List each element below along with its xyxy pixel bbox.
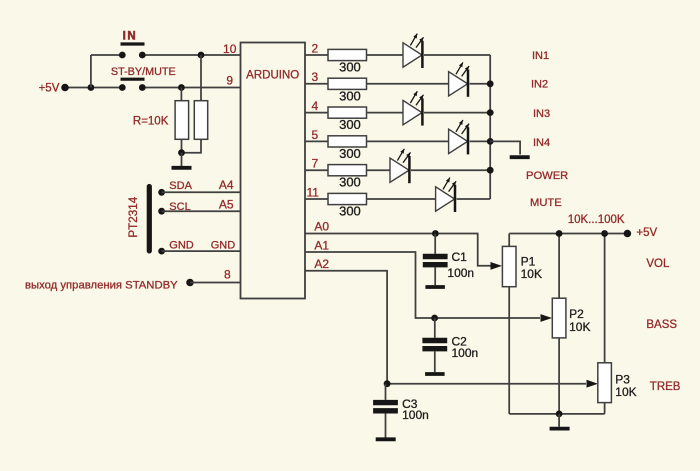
svg-text:C1: C1 (452, 250, 468, 264)
svg-text:+5V: +5V (39, 82, 60, 94)
svg-text:8: 8 (224, 268, 231, 282)
svg-text:A5: A5 (219, 198, 234, 212)
svg-text:300: 300 (339, 146, 361, 161)
svg-text:SCL: SCL (169, 201, 190, 213)
svg-text:100n: 100n (452, 346, 479, 360)
svg-text:R=10K: R=10K (133, 116, 169, 128)
svg-text:TREB: TREB (650, 381, 681, 393)
svg-text:10: 10 (223, 42, 237, 56)
svg-text:выход управления STANDBY: выход управления STANDBY (25, 279, 178, 291)
svg-text:300: 300 (339, 88, 361, 103)
svg-text:ARDUINO: ARDUINO (246, 69, 299, 81)
svg-text:ST-BY/MUTE: ST-BY/MUTE (111, 66, 176, 78)
svg-text:100n: 100n (447, 266, 474, 280)
svg-text:VOL: VOL (646, 258, 670, 270)
svg-text:10K...100K: 10K...100K (568, 214, 625, 226)
svg-text:BASS: BASS (646, 319, 677, 331)
svg-text:11: 11 (307, 185, 320, 199)
svg-text:A4: A4 (219, 178, 234, 192)
svg-text:A0: A0 (314, 220, 329, 234)
svg-text:300: 300 (339, 117, 361, 132)
svg-text:2: 2 (312, 41, 319, 55)
svg-text:IN1: IN1 (532, 50, 549, 62)
svg-text:A1: A1 (314, 238, 329, 252)
svg-text:4: 4 (312, 99, 319, 113)
svg-text:5: 5 (312, 128, 319, 142)
svg-text:IN4: IN4 (533, 137, 550, 149)
svg-text:MUTE: MUTE (530, 197, 562, 209)
svg-text:IN2: IN2 (531, 78, 548, 90)
svg-text:300: 300 (339, 204, 361, 219)
svg-text:PT2314: PT2314 (127, 196, 140, 237)
svg-text:+5V: +5V (636, 227, 657, 239)
svg-text:POWER: POWER (526, 170, 568, 182)
svg-text:300: 300 (339, 60, 361, 75)
svg-text:100n: 100n (402, 408, 429, 422)
svg-text:300: 300 (339, 175, 361, 190)
svg-text:SDA: SDA (169, 180, 192, 192)
svg-text:10K: 10K (569, 320, 590, 334)
svg-text:GND: GND (169, 240, 194, 252)
svg-text:IN: IN (123, 31, 138, 43)
svg-text:IN3: IN3 (533, 108, 550, 120)
svg-text:3: 3 (312, 70, 319, 84)
svg-text:7: 7 (312, 157, 319, 171)
svg-text:10K: 10K (615, 385, 636, 399)
svg-text:A2: A2 (314, 257, 329, 271)
svg-text:10K: 10K (521, 267, 542, 281)
svg-text:9: 9 (226, 74, 233, 88)
svg-text:GND: GND (211, 240, 236, 252)
